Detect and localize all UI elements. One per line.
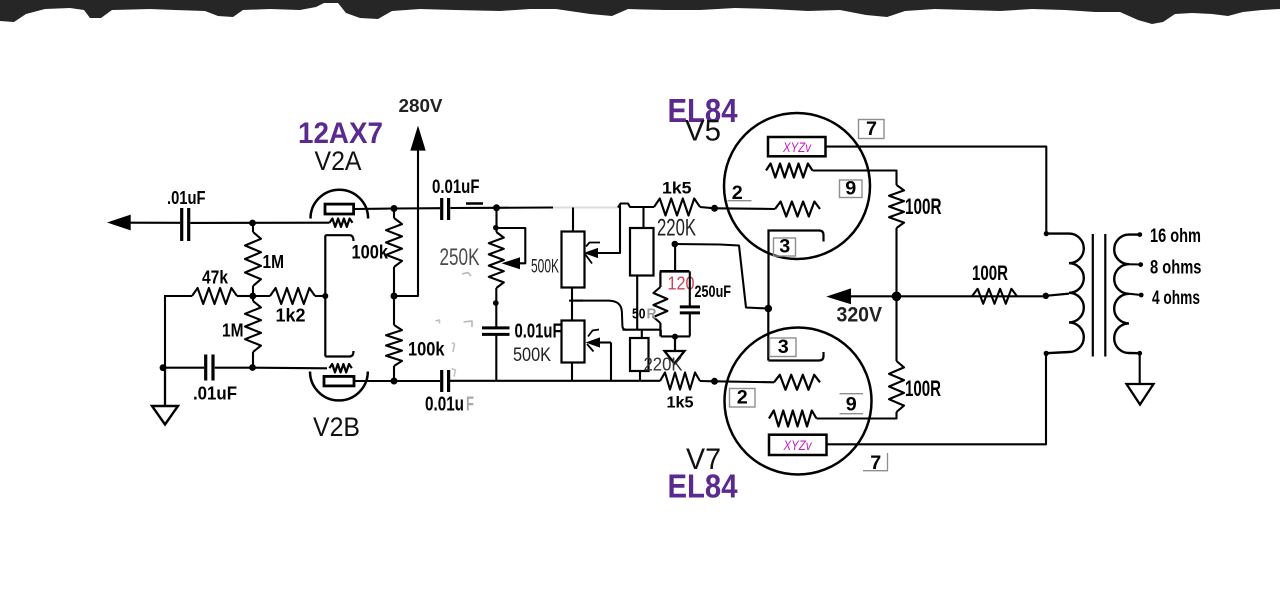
node 4 ohm tap [1139, 293, 1144, 298]
wire C1 to V2A grid [190, 222, 329, 224]
node ground-side junction [160, 364, 167, 371]
capacitor 0.01uF lower coupling [440, 370, 443, 392]
V7 pin 3 box [770, 338, 797, 357]
node centre tap [1043, 293, 1049, 299]
svg-text:1M: 1M [222, 320, 244, 341]
triode V2A envelope arc [311, 190, 369, 219]
capacitor 0.01uF upper coupling [440, 198, 443, 220]
svg-text:2: 2 [737, 388, 748, 409]
svg-text:V2B: V2B [313, 412, 360, 442]
svg-text:.01uF: .01uF [167, 187, 206, 208]
svg-text:XYZv: XYZv [783, 437, 813, 453]
node lower cap junction [249, 364, 256, 371]
resistor 100k lower plate load [386, 325, 402, 366]
bias network top bar [660, 270, 690, 273]
node 320V rail junction [892, 292, 902, 302]
node secondary bottom [1137, 351, 1142, 356]
svg-text:XYZv: XYZv [782, 139, 812, 155]
transformer primary winding [1046, 234, 1084, 354]
tap lead 4 ohms [1129, 294, 1141, 295]
V7 heater/screen zigzag lower [769, 411, 817, 427]
svg-text:1M: 1M [263, 251, 285, 272]
wire bias feed (between boxes to cathode net) [572, 301, 627, 330]
250K wiper arrow [502, 257, 521, 269]
svg-text:220K: 220K [644, 355, 683, 375]
wire to V2B grid [253, 367, 327, 370]
svg-text:100k: 100k [352, 243, 389, 264]
potentiometer 500K lower box [562, 321, 585, 363]
V7 cathode rail [767, 309, 769, 361]
arrow 320V supply [826, 288, 851, 304]
capacitor .01uF input coupling [180, 208, 183, 241]
resistor 1k2 [270, 288, 315, 304]
node V2A plate junction [391, 205, 398, 212]
input arrow (signal to previous stage) [107, 215, 131, 231]
resistor 100R V7 [889, 361, 904, 412]
resistor 120R cathode bias [659, 271, 661, 287]
svg-text:8 ohms: 8 ohms [1150, 258, 1202, 279]
wire V7 plate to transformer [827, 354, 1047, 445]
V7 pin 2 box [730, 389, 756, 408]
capacitor 0.01uF mid (to ground rail) [482, 326, 510, 329]
wire secondary to ground [1139, 353, 1141, 384]
resistor 100k upper plate load [386, 218, 402, 267]
svg-text:9: 9 [846, 395, 857, 416]
svg-text:0.01uF: 0.01uF [515, 321, 562, 343]
svg-text:0.01uF: 0.01uF [432, 177, 480, 198]
wire 100R to 320V node [895, 228, 897, 296]
wire bias to pin3 rail [675, 244, 769, 309]
svg-text:47k: 47k [202, 267, 229, 288]
svg-text:9: 9 [845, 179, 856, 200]
triode V2B envelope arc [310, 372, 368, 401]
resistor 1k5 upper [654, 199, 700, 216]
pentode V5 envelope [724, 113, 870, 259]
V5 pin 9 box [840, 180, 863, 198]
node input/1M junction [249, 220, 256, 227]
svg-text:F: F [466, 394, 474, 416]
resistor 1M upper [245, 232, 261, 286]
node pin3 rail junction [765, 305, 773, 313]
V2B plate [324, 376, 354, 386]
node primary top [1044, 231, 1049, 236]
node B+ junction [391, 293, 398, 300]
svg-text:100R: 100R [972, 262, 1008, 285]
svg-text:100R: 100R [905, 376, 941, 401]
svg-text:7: 7 [866, 119, 877, 140]
wire 220K lower top lead [641, 330, 643, 339]
svg-text:1k2: 1k2 [276, 305, 306, 326]
wire V2A plate to 100k [354, 207, 394, 210]
potentiometer 500K upper box [562, 232, 585, 288]
svg-text:V7: V7 [686, 443, 721, 476]
ground (speaker return) [1127, 384, 1154, 405]
svg-text:500K: 500K [513, 345, 551, 366]
resistor 220K lower box [630, 338, 649, 371]
capacitor .01uF lower [204, 355, 207, 381]
V7 plate box XYZv [769, 435, 827, 455]
wire heater to 100R rail [813, 171, 897, 186]
V5 pin 7 box [859, 120, 885, 139]
wire centre tap lead [1046, 294, 1069, 296]
wire 320V to transformer centre tap [848, 295, 1046, 297]
node V5 grid junction [711, 205, 718, 212]
V2A grid [330, 219, 353, 227]
V2A plate [325, 204, 354, 214]
torn scan edge band (top) [0, 0, 1280, 24]
250K wiper arm [498, 228, 525, 263]
500K upper wiper [597, 204, 620, 253]
wire heater to 100R rail V7 [817, 412, 897, 419]
smudge marks near 250K [462, 273, 471, 277]
transformer secondary winding [1114, 235, 1140, 354]
V5 plate box XYZv [768, 137, 826, 156]
svg-text:250K: 250K [440, 244, 480, 271]
wire jog before 1k5 [618, 204, 654, 208]
wire bottom rail [449, 380, 660, 382]
wire 1k5 to V7 grid [715, 381, 775, 382]
wire to 280V rail [394, 149, 418, 296]
svg-text:16 ohm: 16 ohm [1150, 226, 1201, 247]
resistor 1M lower [245, 301, 261, 352]
resistor 47k feedback [192, 288, 237, 304]
V5 grid zigzag [775, 202, 820, 217]
svg-text:V2A: V2A [315, 146, 362, 176]
svg-text:0.01u: 0.01u [425, 394, 464, 416]
svg-text:250uF: 250uF [695, 282, 732, 301]
resistor 220K upper box [630, 228, 654, 276]
junction tick between 500K boxes [569, 300, 583, 302]
svg-text:V5: V5 [685, 115, 721, 148]
wire 1k5 to V5 grid [700, 207, 715, 208]
svg-text:1k5: 1k5 [667, 395, 694, 412]
node bias junction [672, 241, 679, 248]
pentode V7 envelope [725, 328, 872, 475]
svg-text:220K: 220K [657, 215, 696, 242]
V5 pin 3 box [774, 238, 796, 256]
node cathode tail [322, 293, 328, 299]
svg-text:50: 50 [632, 306, 646, 323]
ground (bias network) [674, 337, 676, 351]
V7 grid zigzag [774, 375, 820, 390]
svg-text:500K: 500K [531, 257, 559, 278]
V7 cathode [769, 352, 824, 361]
wire 220K lower to bottom rail [639, 371, 641, 381]
wire V2B plate to 100k [354, 380, 394, 382]
arrow 280V supply [410, 126, 425, 151]
capacitor 250uF bypass [689, 271, 691, 306]
transformer core [1092, 234, 1094, 357]
V5 heater/screen zigzag upper [766, 164, 813, 178]
wire bias bottom upper level [623, 329, 662, 331]
svg-text:R: R [647, 306, 657, 323]
svg-text:280V: 280V [399, 95, 444, 116]
scan artifact dash [466, 202, 483, 205]
wire feedback left vertical [164, 295, 166, 369]
svg-text:320V: 320V [837, 304, 883, 327]
svg-text:1k5: 1k5 [662, 179, 692, 198]
tap lead 8 ohms [1129, 263, 1141, 265]
node tail junction [249, 293, 256, 300]
node primary bottom [1044, 351, 1049, 356]
faint erased wire segment [553, 207, 618, 209]
wire cathode rail V2A-V2B [324, 235, 326, 356]
ground (input) [164, 368, 166, 406]
svg-text:4 ohms: 4 ohms [1152, 288, 1200, 309]
potentiometer 250K track [489, 232, 504, 288]
500K lower wiper [600, 341, 612, 343]
resistor 100R HT feed [972, 289, 1017, 304]
node 250K top [493, 204, 500, 211]
node 8 ohm tap [1138, 262, 1143, 267]
node V7 grid junction [711, 378, 718, 385]
V2B cathode [325, 351, 353, 357]
svg-text:100R: 100R [905, 194, 942, 219]
wire V5 plate to transformer [826, 147, 1047, 234]
wire bias step down [660, 330, 662, 337]
V5 cathode [769, 231, 824, 309]
wire down to 250K [495, 208, 497, 232]
wire main top rail [497, 206, 554, 208]
wire 220K upper bottom lead [636, 276, 638, 330]
V2A cathode [325, 235, 353, 241]
svg-text:.01uF: .01uF [193, 383, 237, 404]
wire 100R V7 to 320V node [895, 296, 897, 361]
node V2B plate junction [391, 378, 398, 385]
V2B grid [329, 364, 351, 372]
svg-text:3: 3 [779, 237, 790, 258]
svg-text:3: 3 [778, 337, 789, 358]
node 16 ohm tap [1137, 232, 1142, 237]
resistor 1k5 lower [660, 373, 700, 390]
wire wiper to bottom rail [610, 343, 612, 381]
node bias ground junction [672, 334, 678, 340]
svg-text:100k: 100k [408, 340, 445, 361]
resistor 100R V5 grid stopper [889, 185, 904, 228]
wire bias bottom lower level [661, 335, 690, 337]
wire input arrow to C1 [129, 222, 180, 224]
